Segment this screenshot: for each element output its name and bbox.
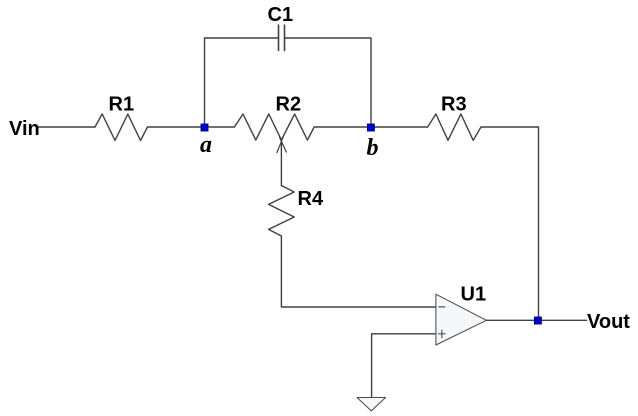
op-amp U1 triangle — [436, 294, 487, 345]
svg-text:Vout: Vout — [587, 311, 630, 333]
svg-text:C1: C1 — [268, 4, 294, 26]
wire C1 right plate to node b — [285, 38, 372, 127]
node b junction square — [367, 124, 374, 131]
wiper arrow of R2 — [277, 137, 287, 153]
node a junction square — [201, 124, 208, 131]
ground — [357, 398, 386, 411]
wire R3 right then down to output node — [481, 127, 539, 320]
svg-text:R1: R1 — [109, 94, 135, 116]
wire R2 to R3 through node b — [314, 126, 427, 128]
svg-text:Vin: Vin — [9, 118, 40, 140]
resistor R4 — [269, 186, 295, 237]
svg-text:b: b — [367, 135, 379, 161]
op-amp minus pin symbol — [439, 306, 445, 308]
wire R4 down then right to op-amp inverting input — [281, 236, 436, 307]
wire op-amp non-inverting input to ground — [372, 334, 436, 398]
svg-text:R2: R2 — [276, 94, 302, 116]
resistor R1 — [95, 114, 148, 141]
resistor R3 — [428, 114, 481, 140]
wire Vin lead — [39, 126, 96, 128]
wire op-amp output to Vout — [486, 319, 586, 321]
op-amp plus pin symbol — [439, 330, 446, 337]
output node junction square — [534, 317, 541, 324]
svg-text:U1: U1 — [461, 283, 487, 305]
svg-text:a: a — [200, 132, 212, 158]
svg-text:R4: R4 — [298, 188, 324, 210]
wire wiper down to R4 — [280, 141, 282, 186]
wire node a up to C1 left plate — [205, 38, 279, 127]
capacitor C1 — [279, 25, 285, 51]
wire R1 to R2 through node a — [148, 126, 235, 128]
resistor R2 (potentiometer) — [234, 114, 314, 140]
svg-text:R3: R3 — [441, 93, 467, 115]
